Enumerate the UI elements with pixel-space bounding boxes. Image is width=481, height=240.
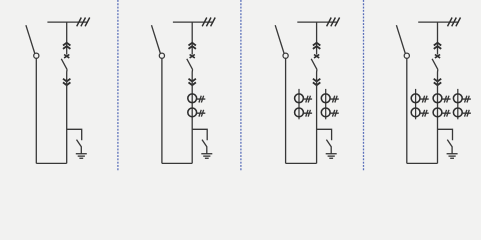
wire: stub of instrument transformer group T3.2 <box>325 89 327 119</box>
wire: feeder drop from breaker Q3 to cable terminal <box>316 70 318 164</box>
secondary tail with 2-wire marks of T3.1b <box>303 110 312 117</box>
drawout contact chevrons (lower) of breaker Q3 <box>313 79 320 86</box>
secondary tail with 2-wire marks of T2.1b <box>197 110 206 117</box>
current transformer T2.1a <box>188 94 197 103</box>
disconnector S2: open blade <box>152 25 161 53</box>
secondary tail with 2-wire marks of T4.3a <box>462 96 471 103</box>
busbar B1 <box>47 21 88 23</box>
earthing switch ES3: open blade <box>326 140 331 154</box>
secondary tail with 2-wire marks of T3.2b <box>330 110 339 117</box>
secondary tail with 2-wire marks of T4.2a <box>442 96 451 103</box>
current transformer T4.3b <box>453 108 462 117</box>
secondary tail with 2-wire marks of T3.1a <box>303 96 312 103</box>
secondary tail with 2-wire marks of T4.1b <box>420 110 429 117</box>
secondary tail with 2-wire marks of T4.1a <box>420 96 429 103</box>
wire: bottom tie between leg and feeder of cubicle 1 <box>36 162 66 164</box>
current transformer T4.1a <box>411 94 420 103</box>
wire: earthing branch of cubicle 3 <box>317 129 332 140</box>
current transformer T3.2b <box>321 108 330 117</box>
circuit breaker Q2: open blade <box>187 59 193 70</box>
disconnector S4: open blade <box>396 25 405 53</box>
busbar B4 <box>418 21 459 23</box>
three-phase slash marks on busbar B3 <box>327 18 340 27</box>
circuit breaker Q1: X contact <box>64 55 69 58</box>
wire: riser from busbar B3 to breaker Q3 <box>316 22 318 55</box>
drawout contact chevrons (lower) of breaker Q2 <box>189 79 196 86</box>
wire: disconnector S2 leg down <box>161 58 163 163</box>
wire: earthing branch of cubicle 4 <box>438 129 453 140</box>
wire: riser from busbar B1 to breaker Q1 <box>66 22 68 55</box>
circuit breaker Q4: X contact <box>435 55 440 58</box>
cubicle separator line 1 <box>117 0 119 171</box>
wire: stub of instrument transformer group T4.1 <box>415 89 417 119</box>
disconnector S2: hinge contact <box>159 53 164 58</box>
wire: riser from busbar B2 to breaker Q2 <box>191 22 193 55</box>
earthing switch ES4: open blade <box>447 140 452 154</box>
cubicle separator line 3 <box>363 0 365 171</box>
three-phase slash marks on busbar B4 <box>448 18 461 27</box>
wire: earthing branch of cubicle 1 <box>67 129 82 140</box>
drawout contact chevrons (upper) of breaker Q1 <box>63 43 70 49</box>
disconnector S3: open blade <box>275 25 284 53</box>
current transformer T4.2a <box>433 94 442 103</box>
disconnector S1: open blade <box>26 25 35 53</box>
drawout contact chevrons (upper) of breaker Q4 <box>434 43 441 49</box>
disconnector S1: hinge contact <box>34 53 39 58</box>
earthing switch ES2: open blade <box>202 140 207 154</box>
wire: feeder drop from breaker Q1 to cable terminal <box>66 70 68 164</box>
current transformer T3.1a <box>295 94 304 103</box>
cubicle separator line 2 <box>240 0 242 171</box>
secondary tail with 2-wire marks of T4.2b <box>442 110 451 117</box>
wire: disconnector S4 leg down <box>406 58 408 163</box>
current transformer T3.2a <box>321 94 330 103</box>
current transformer T3.1b <box>295 108 304 117</box>
secondary tail with 2-wire marks of T3.2a <box>330 96 339 103</box>
wire: earthing branch of cubicle 2 <box>192 129 207 140</box>
wire: bottom tie between leg and feeder of cubicle 3 <box>286 162 317 164</box>
secondary tail with 2-wire marks of T4.3b <box>462 110 471 117</box>
wire: feeder drop from breaker Q2 to cable terminal <box>191 70 193 164</box>
ground symbol E2 <box>201 154 212 159</box>
drawout contact chevrons (upper) of breaker Q2 <box>189 43 196 49</box>
ground symbol E3 <box>326 154 337 159</box>
earthing switch ES1: open blade <box>77 140 82 154</box>
drawout contact chevrons (upper) of breaker Q3 <box>313 43 320 49</box>
wire: disconnector S1 leg down <box>35 58 37 163</box>
circuit breaker Q3: X contact <box>314 55 319 58</box>
circuit breaker Q2: X contact <box>190 55 195 58</box>
disconnector S4: hinge contact <box>404 53 409 58</box>
wire: bottom tie between leg and feeder of cubicle 4 <box>407 162 438 164</box>
ground symbol E1 <box>76 154 87 159</box>
wire: bottom tie between leg and feeder of cubicle 2 <box>162 162 192 164</box>
current transformer T2.1b <box>188 108 197 117</box>
circuit breaker Q4: open blade <box>432 59 438 70</box>
current transformer T4.1b <box>411 108 420 117</box>
drawout contact chevrons (lower) of breaker Q1 <box>63 79 70 86</box>
current transformer T4.3a <box>453 94 462 103</box>
drawout contact chevrons (lower) of breaker Q4 <box>434 79 441 86</box>
busbar B2 <box>173 21 214 23</box>
ground symbol E4 <box>447 154 458 159</box>
wire: disconnector S3 leg down <box>285 58 287 163</box>
three-phase slash marks on busbar B1 <box>77 18 90 27</box>
wire: stub of instrument transformer group T3.1 <box>298 89 300 119</box>
wire: riser from busbar B4 to breaker Q4 <box>437 22 439 55</box>
three-phase slash marks on busbar B2 <box>202 18 215 27</box>
wire: stub of instrument transformer group T4.3 <box>457 89 459 119</box>
busbar B3 <box>297 21 338 23</box>
circuit breaker Q3: open blade <box>311 59 317 70</box>
current transformer T4.2b <box>433 108 442 117</box>
disconnector S3: hinge contact <box>283 53 288 58</box>
secondary tail with 2-wire marks of T2.1a <box>197 96 206 103</box>
wire: feeder drop from breaker Q4 to cable terminal <box>437 70 439 164</box>
circuit breaker Q1: open blade <box>61 59 67 70</box>
